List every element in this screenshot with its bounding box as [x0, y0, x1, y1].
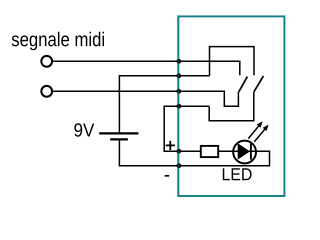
- resistor R1: [201, 146, 218, 157]
- LED D1 cathode bar: [250, 143, 252, 159]
- switch B blade: [254, 76, 264, 92]
- label: LED: [223, 168, 252, 180]
- junction node - rail: [176, 163, 181, 168]
- terminal circle 2 (midi signal): [41, 86, 52, 97]
- junction node y=61: [176, 59, 181, 64]
- junction node + rail: [176, 149, 181, 154]
- wire: input jack tip to switch A top (node row y=61): [53, 61, 240, 75]
- junction node y=91: [176, 89, 181, 94]
- battery B1 short plate (-): [110, 138, 128, 140]
- enclosure box (teal): [178, 16, 284, 196]
- enclosure left edge redrawn over junction dots: [177, 16, 179, 196]
- wire: input jack sleeve to switch A bottom (row y=91): [53, 91, 238, 106]
- wire: LED feed loop (+ rail, LED return, battery -): [119, 106, 269, 166]
- LED D1 anode triangle: [238, 143, 250, 159]
- junction node y=76: [176, 73, 181, 78]
- terminal circle 1 (midi signal): [41, 56, 52, 67]
- LED light arrow 1: [248, 121, 262, 138]
- battery B1 long plate (+): [99, 132, 138, 134]
- minus label: [165, 175, 170, 177]
- junction node y=106: [176, 104, 181, 109]
- wire: top loop to switch B top: [210, 47, 255, 76]
- LED light arrow 2: [254, 125, 268, 142]
- switch A blade: [239, 77, 248, 92]
- wire: battery + up to row y=75.8 into box: [119, 76, 209, 134]
- plus label: [166, 141, 175, 150]
- label: segnale midi: [12, 32, 104, 51]
- LED D1 circle: [233, 141, 256, 164]
- wire: switch B bottom run: [209, 92, 254, 121]
- label: 9V: [74, 123, 94, 136]
